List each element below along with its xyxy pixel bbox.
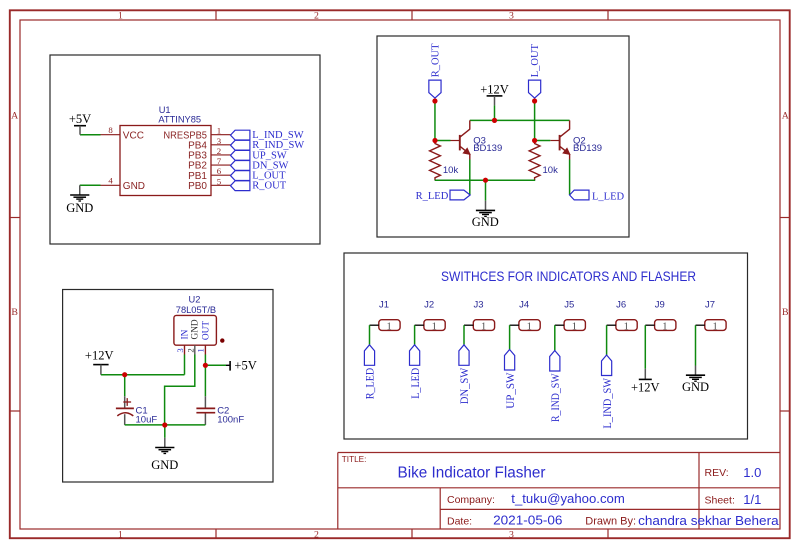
svg-text:+12V: +12V <box>631 381 660 395</box>
svg-text:J5: J5 <box>564 299 574 310</box>
svg-text:OUT: OUT <box>202 321 212 340</box>
svg-text:GND: GND <box>191 319 201 339</box>
svg-text:DN_SW: DN_SW <box>459 367 471 404</box>
svg-text:1.0: 1.0 <box>743 465 761 480</box>
svg-text:5: 5 <box>217 176 222 186</box>
svg-text:1: 1 <box>196 348 206 352</box>
svg-text:B: B <box>11 307 18 318</box>
svg-text:L_LED: L_LED <box>592 191 624 202</box>
svg-text:Drawn By:: Drawn By: <box>585 515 636 527</box>
svg-text:2: 2 <box>314 529 319 540</box>
svg-text:TITLE:: TITLE: <box>342 455 367 464</box>
svg-text:Sheet:: Sheet: <box>705 495 735 507</box>
svg-text:Date:: Date: <box>447 515 472 527</box>
svg-text:A: A <box>11 110 18 121</box>
svg-text:J1: J1 <box>379 299 389 310</box>
svg-text:2: 2 <box>217 146 221 156</box>
svg-text:J6: J6 <box>616 299 626 310</box>
svg-text:J2: J2 <box>424 299 434 310</box>
svg-text:IN: IN <box>180 329 190 339</box>
svg-text:R_IND_SW: R_IND_SW <box>550 373 562 422</box>
svg-text:R_OUT: R_OUT <box>430 43 441 77</box>
svg-text:10k: 10k <box>543 165 559 176</box>
svg-text:1: 1 <box>386 321 391 332</box>
svg-text:GND: GND <box>66 201 93 215</box>
svg-text:1: 1 <box>481 321 486 332</box>
svg-text:78L05T/B: 78L05T/B <box>176 305 216 315</box>
svg-text:L_OUT: L_OUT <box>530 43 541 77</box>
svg-text:L_LED: L_LED <box>410 368 422 399</box>
svg-text:t_tuku@yahoo.com: t_tuku@yahoo.com <box>511 491 625 506</box>
svg-text:BD139: BD139 <box>473 143 502 154</box>
svg-text:1: 1 <box>432 321 437 332</box>
svg-text:2021-05-06: 2021-05-06 <box>493 512 562 527</box>
svg-text:1: 1 <box>527 321 532 332</box>
svg-text:+12V: +12V <box>480 82 509 96</box>
svg-text:3: 3 <box>509 529 514 540</box>
svg-text:GND: GND <box>151 458 178 472</box>
svg-text:+12V: +12V <box>85 348 114 362</box>
svg-text:1: 1 <box>118 529 123 540</box>
svg-text:2: 2 <box>314 11 319 22</box>
svg-text:J9: J9 <box>655 299 665 310</box>
svg-text:8: 8 <box>108 125 113 135</box>
svg-text:6: 6 <box>217 166 222 176</box>
svg-text:3: 3 <box>509 11 514 22</box>
svg-text:+5V: +5V <box>234 358 256 372</box>
svg-text:R_LED: R_LED <box>365 368 377 400</box>
svg-text:1: 1 <box>712 321 717 332</box>
svg-text:GND: GND <box>123 181 145 192</box>
svg-text:REV:: REV: <box>705 467 729 479</box>
svg-text:GND: GND <box>682 380 709 394</box>
svg-text:3: 3 <box>175 348 185 353</box>
svg-text:Bike Indicator Flasher: Bike Indicator Flasher <box>398 465 546 482</box>
svg-text:A: A <box>782 110 789 121</box>
svg-text:1: 1 <box>572 321 577 332</box>
svg-text:1: 1 <box>217 126 221 136</box>
svg-text:L_IND_SW: L_IND_SW <box>602 378 614 429</box>
svg-text:R_OUT: R_OUT <box>252 181 286 192</box>
svg-text:7: 7 <box>217 156 222 166</box>
svg-text:GND: GND <box>472 215 499 229</box>
svg-text:10uF: 10uF <box>136 414 158 425</box>
svg-text:1/1: 1/1 <box>743 492 761 507</box>
svg-text:10k: 10k <box>443 165 459 176</box>
svg-text:1: 1 <box>624 321 629 332</box>
svg-text:B: B <box>782 307 789 318</box>
svg-text:4: 4 <box>108 176 113 186</box>
svg-text:J7: J7 <box>705 299 715 310</box>
svg-text:Company:: Company: <box>447 494 495 506</box>
svg-text:UP_SW: UP_SW <box>505 372 517 409</box>
svg-text:3: 3 <box>217 136 222 146</box>
svg-text:100nF: 100nF <box>217 414 244 425</box>
svg-text:J4: J4 <box>519 299 529 310</box>
svg-text:R_LED: R_LED <box>416 191 449 202</box>
svg-text:U2: U2 <box>189 295 201 305</box>
svg-text:1: 1 <box>662 321 667 332</box>
svg-text:chandra sekhar Behera: chandra sekhar Behera <box>638 513 779 528</box>
svg-text:SWITHCES FOR INDICATORS AND FL: SWITHCES FOR INDICATORS AND FLASHER <box>441 269 696 284</box>
svg-text:1: 1 <box>118 11 123 22</box>
svg-text:VCC: VCC <box>123 131 144 142</box>
svg-text:2: 2 <box>185 348 195 352</box>
svg-text:ATTINY85: ATTINY85 <box>158 114 201 124</box>
svg-text:+5V: +5V <box>69 112 91 126</box>
svg-text:BD139: BD139 <box>573 143 602 154</box>
svg-text:PB0: PB0 <box>188 181 207 192</box>
svg-text:J3: J3 <box>473 299 483 310</box>
